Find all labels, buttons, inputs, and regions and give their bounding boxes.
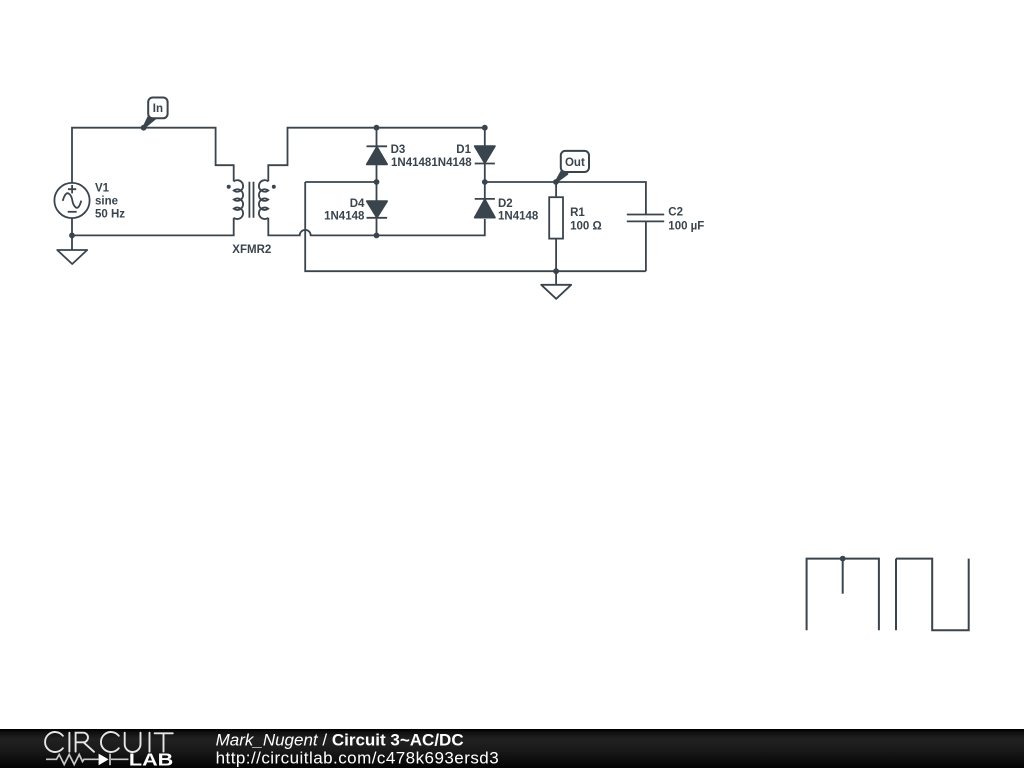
junction dot node Out [553,179,559,185]
svg-text:LAB: LAB [129,750,173,768]
svg-text:http://circuitlab.com/c478k693: http://circuitlab.com/c478k693ersd3 [216,749,500,768]
transformer XFMR2 [234,180,269,219]
svg-text:Out: Out [565,157,585,169]
net flag In [144,98,168,128]
svg-text:V1: V1 [95,182,110,194]
diode D2 (cathode up) [475,182,495,218]
XFMR2 primary phase dot [227,185,231,189]
ground (left) [57,250,87,264]
svg-text:D2: D2 [498,198,513,210]
svg-text:100 Ω: 100 Ω [570,220,602,232]
svg-text:50 Hz: 50 Hz [95,208,125,220]
junction dot V1 bottom [69,233,75,239]
svg-text:sine: sine [95,195,118,207]
junction dot mid rail at D1/D2 [482,179,488,185]
svg-text:D4: D4 [350,198,365,210]
footer bar [0,729,1024,768]
wire: C2 bottom to bottom rail [645,222,647,271]
capacitor C2 [627,215,664,222]
diode D1 (cathode down) [475,128,495,182]
junction dot node In [141,125,147,131]
wire: node Out rail, bridge output to C2 top [485,182,646,214]
svg-text:C2: C2 [668,207,683,219]
wire: node In net, V1 top to transformer primary top [72,128,234,183]
wire: ground stub right [555,271,557,285]
wire: V1 bottom to transformer primary bottom [72,218,234,250]
junction dot top rail at D3 [374,125,380,131]
svg-text:XFMR2: XFMR2 [232,244,271,256]
svg-text:1N4148: 1N4148 [324,211,365,223]
ground (right) [541,285,571,299]
junction dot top rail at D1 [482,125,488,131]
resistor R1 [549,182,563,271]
junction dot on U-shape wire [840,556,846,562]
CircuitLab logo resistor-diode glyph [46,754,129,766]
CircuitLab logo wordmark CIRCUIT [45,732,173,752]
voltage source V1 [54,183,89,218]
svg-text:1N4148: 1N4148 [431,157,472,169]
wire: transformer secondary top to bridge top rail [268,128,485,182]
wire: mid-left rail to D3/D4 junction [305,181,376,183]
svg-text:D3: D3 [391,144,406,156]
svg-text:Mark_Nugent / Circuit 3~AC/DC: Mark_Nugent / Circuit 3~AC/DC [216,731,464,750]
junction dot bottom rail at R1/ground [553,268,559,274]
wire: left vertical drop and bottom rail [305,182,646,271]
junction dot mid rail at D3/D4 [374,179,380,185]
svg-text:1N4148: 1N4148 [498,211,539,223]
svg-text:R1: R1 [570,207,585,219]
diode D4 (cathode down) [367,182,388,235]
svg-text:100 µF: 100 µF [668,220,704,232]
svg-text:1N4148: 1N4148 [391,157,432,169]
junction dot bottom rail at D4 [374,233,380,239]
wire: unconnected U-shape lower right [807,559,879,631]
XFMR2 secondary phase dot [272,185,276,189]
diode D3 (cathode up) [367,128,388,182]
svg-text:In: In [153,103,163,115]
wire: unconnected square-wave shape lower right [896,559,969,631]
svg-text:D1: D1 [456,144,471,156]
wire: stub from junction on U-shape [842,559,844,594]
wire: transformer secondary bottom to D2 anode, with hop [268,218,485,236]
net flag Out [556,151,589,182]
